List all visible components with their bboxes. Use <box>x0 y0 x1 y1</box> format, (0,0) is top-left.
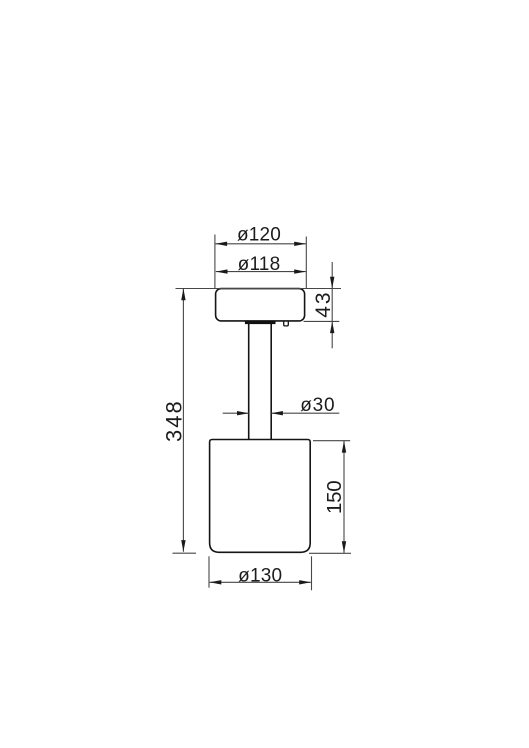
svg-text:150: 150 <box>323 481 346 514</box>
svg-text:ø120: ø120 <box>237 224 281 245</box>
svg-text:ø30: ø30 <box>300 395 335 416</box>
svg-text:ø118: ø118 <box>238 254 281 275</box>
svg-text:ø130: ø130 <box>238 565 282 586</box>
svg-text:348: 348 <box>162 399 187 442</box>
svg-text:43: 43 <box>312 290 335 317</box>
